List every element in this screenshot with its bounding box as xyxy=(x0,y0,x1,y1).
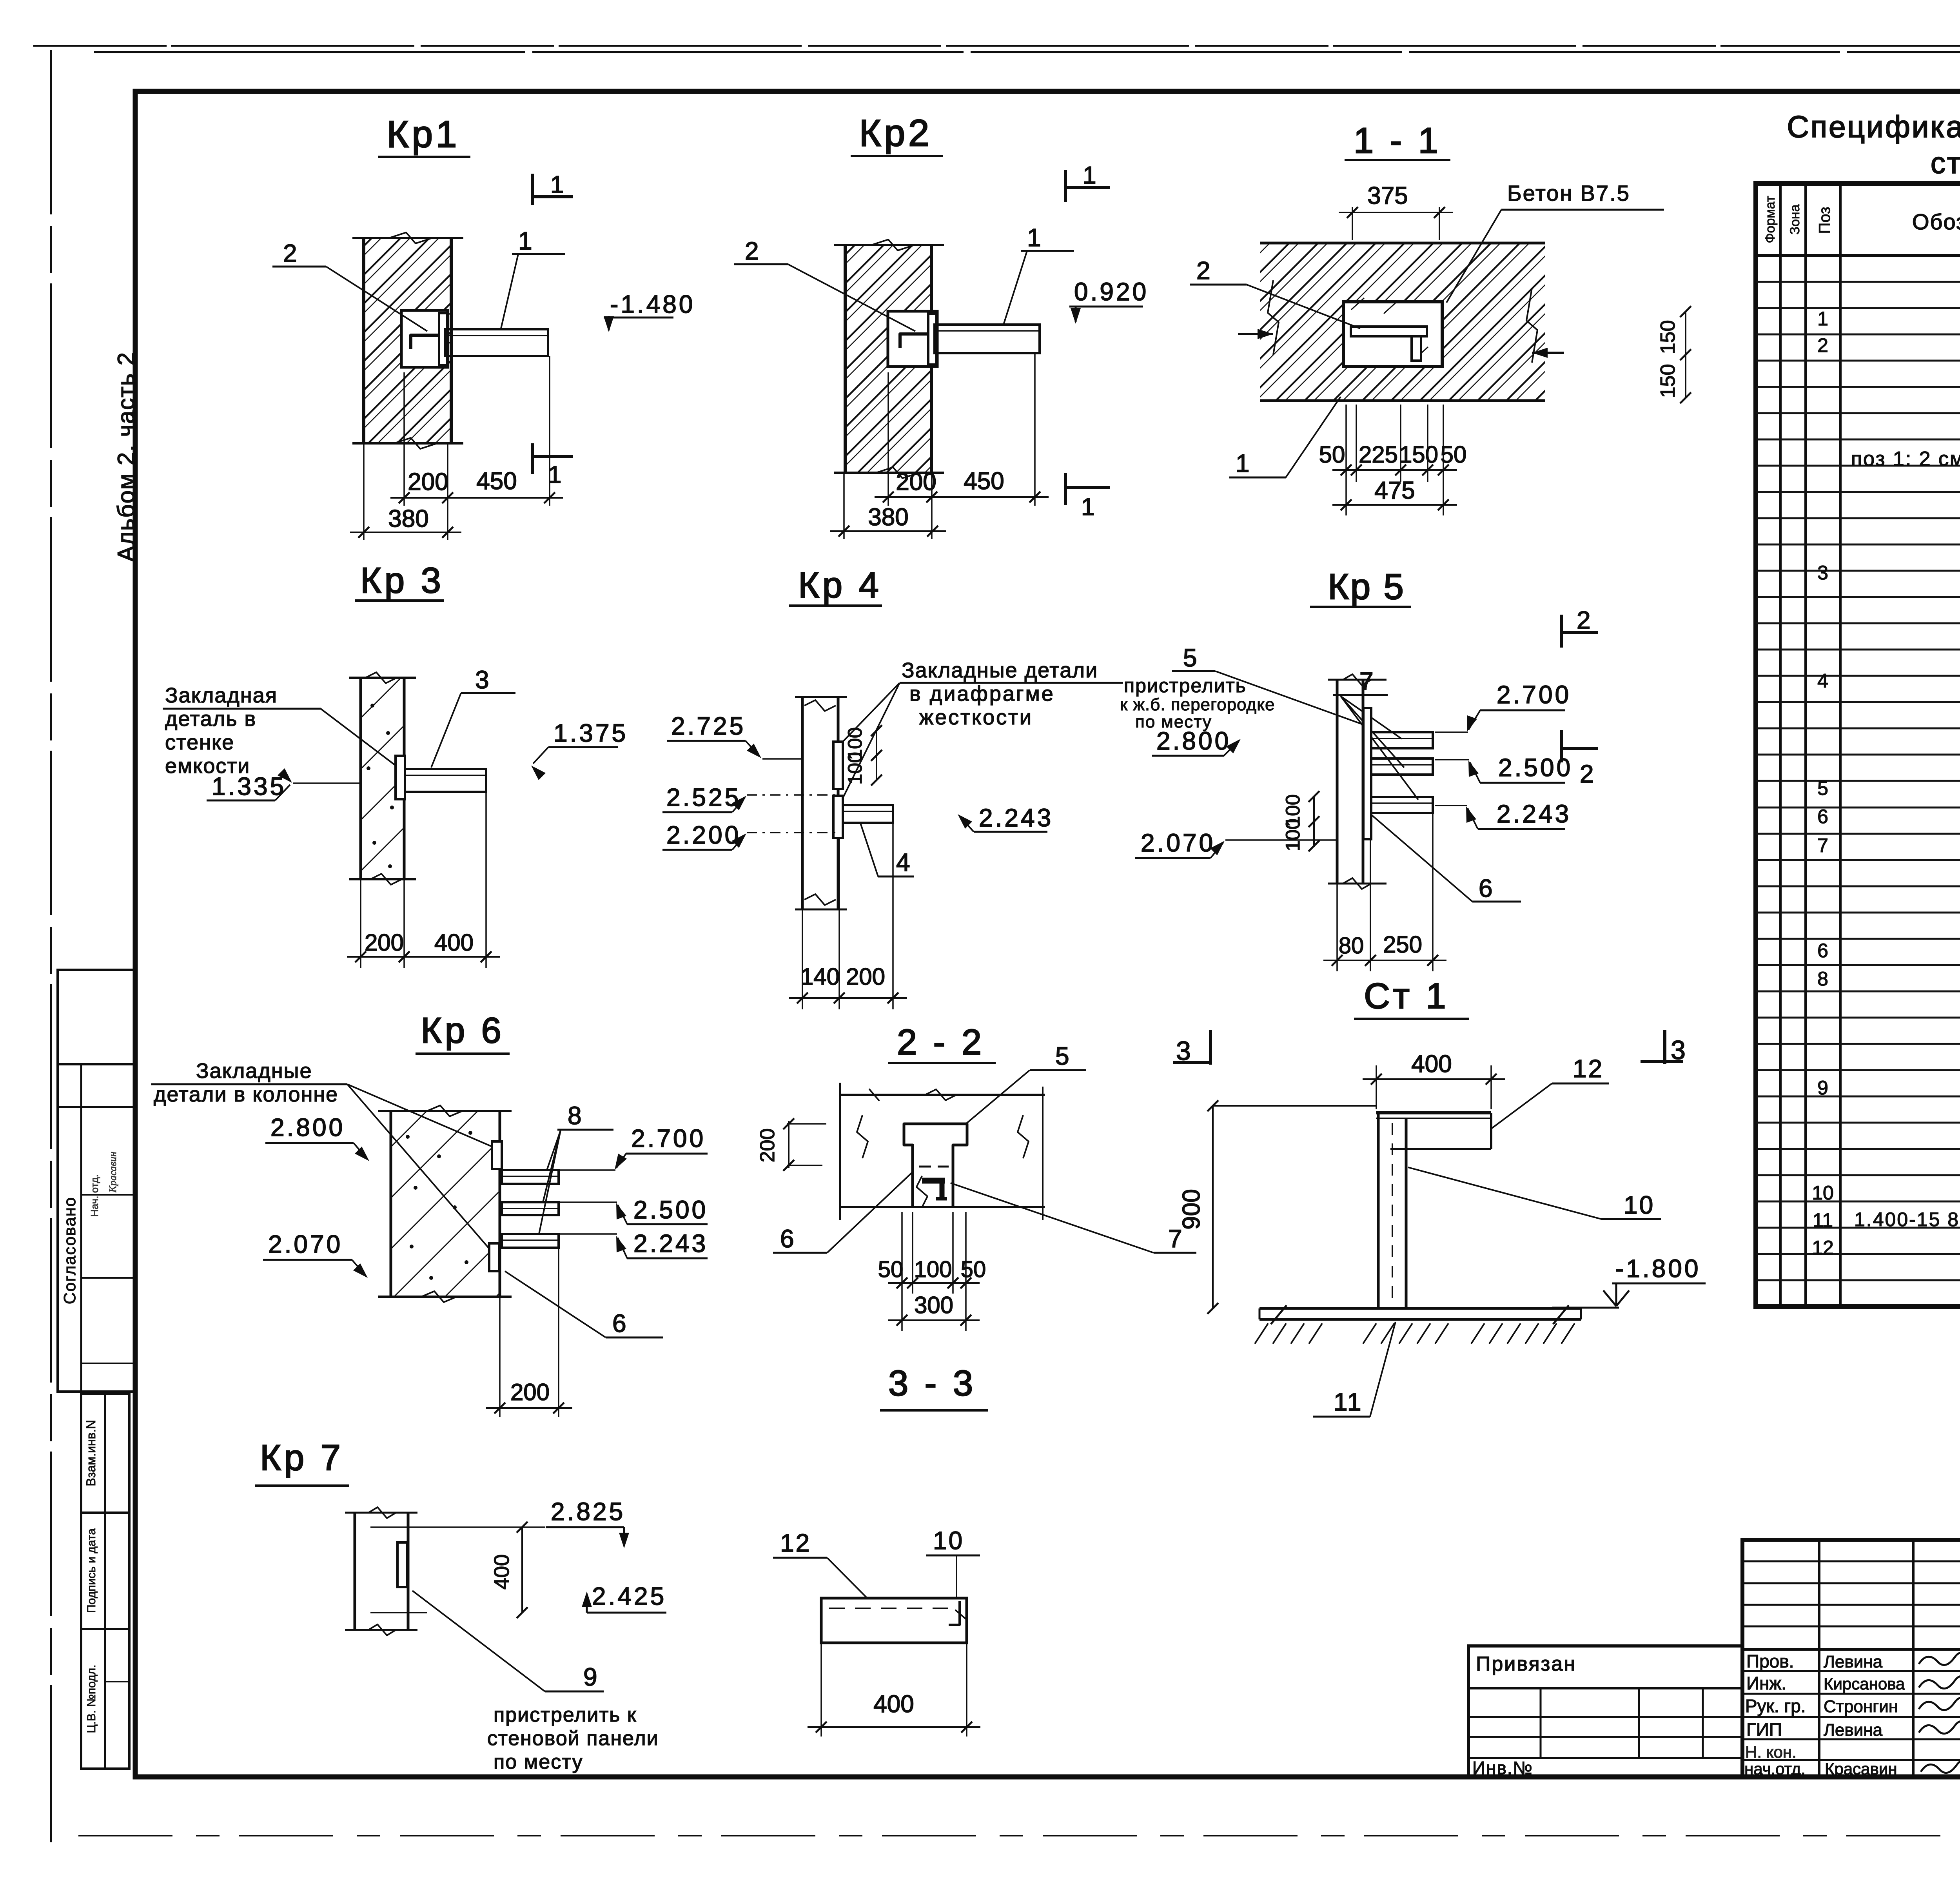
Kp2 dim 200 450 xyxy=(887,372,889,506)
svg-text:12: 12 xyxy=(1812,1237,1834,1259)
svg-text:Закладные детали: Закладные детали xyxy=(902,659,1098,682)
svg-text:140: 140 xyxy=(800,964,840,990)
St1 dim 900 vertical xyxy=(1213,1105,1376,1107)
St1 shelf angle 12 xyxy=(1376,1111,1491,1114)
svg-text:стойке Ст1: стойке Ст1 xyxy=(1931,147,1960,180)
svg-text:6: 6 xyxy=(780,1225,794,1253)
svg-text:11: 11 xyxy=(1334,1388,1363,1416)
Kp3 bracket bar 3 xyxy=(405,769,486,792)
Kp5 wall member xyxy=(1328,679,1387,681)
svg-text:1: 1 xyxy=(1817,308,1828,330)
svg-text:80: 80 xyxy=(1339,933,1364,958)
svg-text:Пров.: Пров. xyxy=(1746,1651,1794,1671)
Kp3 embedded plate xyxy=(396,756,405,799)
privyazan block xyxy=(1468,1646,1742,1777)
svg-text:Ст 1: Ст 1 xyxy=(1364,976,1449,1016)
Kp1 dim 380 xyxy=(363,443,365,540)
svg-text:1.375: 1.375 xyxy=(554,719,628,747)
svg-text:Кр 3: Кр 3 xyxy=(360,561,444,601)
1-1 vertical dims 150 150 xyxy=(1685,312,1686,398)
Kp5 bracket bar top xyxy=(1371,732,1433,748)
Kp4 bracket bar 4 xyxy=(843,805,893,823)
svg-text:450: 450 xyxy=(964,468,1004,495)
svg-text:9: 9 xyxy=(583,1663,597,1691)
title block signatures xyxy=(1919,1653,1960,1665)
svg-text:200: 200 xyxy=(896,468,936,495)
svg-text:400: 400 xyxy=(1411,1051,1452,1078)
St1 dim 400 xyxy=(1376,1065,1377,1109)
title block verticals xyxy=(1818,1540,1820,1777)
svg-text:2.825: 2.825 xyxy=(551,1497,625,1526)
svg-text:Левина: Левина xyxy=(1824,1720,1883,1740)
svg-text:Поз: Поз xyxy=(1816,207,1833,234)
svg-text:2.200: 2.200 xyxy=(666,821,741,849)
svg-text:Кр2: Кр2 xyxy=(859,112,933,154)
svg-text:Красавин: Красавин xyxy=(1825,1760,1897,1778)
svg-text:ГИП: ГИП xyxy=(1746,1719,1782,1740)
svg-text:380: 380 xyxy=(388,505,428,532)
svg-text:2.500: 2.500 xyxy=(1498,753,1573,782)
Kp4 embedded plate bottom xyxy=(833,796,843,838)
svg-text:150: 150 xyxy=(1399,441,1438,468)
outer border top xyxy=(33,45,1960,47)
svg-text:Спецификация к кронштейнам: Спецификация к кронштейнам Кр1 ÷ Кр7 и xyxy=(1787,109,1960,144)
svg-text:6: 6 xyxy=(1479,874,1493,902)
left stamp: soglasovano box xyxy=(58,1064,136,1392)
1-1 dim 375 xyxy=(1352,207,1353,240)
svg-text:Красавин: Красавин xyxy=(107,1152,118,1193)
svg-text:1: 1 xyxy=(1081,494,1094,521)
left stamp: vzam inv box xyxy=(81,1394,129,1513)
Kp5 bracket bar mid xyxy=(1371,758,1433,775)
svg-text:1: 1 xyxy=(1236,449,1250,477)
Kp1 dim 200 450 xyxy=(403,372,405,506)
svg-text:Закладная: Закладная xyxy=(165,684,278,707)
svg-text:Кр 6: Кр 6 xyxy=(421,1011,504,1051)
svg-text:1.400-15 81.420-02: 1.400-15 81.420-02 xyxy=(1854,1208,1960,1230)
2-2 channel plate 5 xyxy=(904,1124,967,1169)
svg-text:2.800: 2.800 xyxy=(1156,727,1231,755)
svg-text:2.725: 2.725 xyxy=(671,712,746,740)
svg-text:Рук. гр.: Рук. гр. xyxy=(1745,1696,1806,1716)
Kp4 embedded plate top xyxy=(833,742,843,789)
svg-text:Согласовано: Согласовано xyxy=(60,1197,79,1305)
svg-text:2: 2 xyxy=(1577,606,1591,634)
Kp1 section mark 1 bottom xyxy=(531,443,534,474)
svg-text:в диафрагме: в диафрагме xyxy=(909,682,1055,706)
outer border left xyxy=(50,50,52,1842)
svg-text:10: 10 xyxy=(1812,1182,1834,1204)
2-2 anchor hook 7 xyxy=(922,1178,945,1184)
svg-text:3 - 3: 3 - 3 xyxy=(888,1363,976,1403)
svg-text:поз 1: 2 см. Кр1: поз 1: 2 см. Кр1 xyxy=(1851,448,1960,470)
svg-text:225: 225 xyxy=(1359,441,1398,468)
Kp3 dim 200 400 xyxy=(360,879,361,968)
svg-text:4: 4 xyxy=(896,848,910,876)
svg-text:200: 200 xyxy=(756,1129,779,1163)
svg-text:450: 450 xyxy=(476,468,517,495)
svg-text:1.335: 1.335 xyxy=(212,772,286,800)
svg-text:Взам.инв.N: Взам.инв.N xyxy=(84,1420,98,1486)
svg-text:2 - 2: 2 - 2 xyxy=(897,1022,985,1062)
svg-text:жесткости: жесткости xyxy=(919,706,1033,729)
Kp6 embedded plate top xyxy=(492,1141,502,1169)
Kp2 embedded plate 2 xyxy=(928,314,936,365)
Kp5 dims 80 250 xyxy=(1336,884,1338,971)
svg-text:8: 8 xyxy=(568,1101,582,1130)
svg-text:Зона: Зона xyxy=(1788,204,1802,234)
svg-text:8: 8 xyxy=(1817,968,1828,990)
svg-text:6: 6 xyxy=(1817,940,1828,962)
svg-text:детали в колонне: детали в колонне xyxy=(154,1083,338,1106)
svg-text:Стронгин: Стронгин xyxy=(1824,1697,1898,1716)
svg-text:250: 250 xyxy=(1383,931,1422,958)
title block small grid rows xyxy=(1742,1560,1960,1562)
Kp6 strap bar mid xyxy=(502,1202,559,1215)
svg-text:пристрелить к: пристрелить к xyxy=(494,1704,637,1726)
svg-text:нач.отд.: нач.отд. xyxy=(1744,1760,1806,1778)
outer border bottom xyxy=(78,1835,1960,1836)
svg-text:Кр 4: Кр 4 xyxy=(798,565,882,605)
Kp2 bracket bar 1 xyxy=(935,325,1040,353)
svg-text:50: 50 xyxy=(878,1257,904,1282)
svg-text:50: 50 xyxy=(1441,441,1467,468)
Kp2 dim 380 xyxy=(843,473,845,539)
spec table column lines xyxy=(1779,183,1782,1306)
Kp2 wall hatched xyxy=(845,245,931,473)
svg-text:3: 3 xyxy=(1817,562,1828,584)
3-3 dim 400 xyxy=(820,1643,822,1737)
svg-text:200: 200 xyxy=(408,468,448,495)
Kp7 wall member xyxy=(345,1512,417,1514)
svg-text:400: 400 xyxy=(490,1554,514,1590)
Kp4 vertical dims 100 100 xyxy=(876,730,877,781)
svg-text:10: 10 xyxy=(933,1526,964,1555)
Kp1 embedded plate 2 box xyxy=(401,310,448,367)
Kp5 vertical dims 100 100 xyxy=(1313,796,1315,847)
svg-text:стеновой панели: стеновой панели xyxy=(487,1727,659,1750)
svg-text:7: 7 xyxy=(1359,667,1374,695)
2-2 dim 300 xyxy=(901,1294,903,1331)
svg-text:12: 12 xyxy=(780,1529,811,1557)
svg-text:Кирсанова: Кирсанова xyxy=(1824,1675,1905,1693)
svg-text:-1.480: -1.480 xyxy=(610,290,695,318)
svg-text:50: 50 xyxy=(961,1257,986,1282)
svg-text:12: 12 xyxy=(1573,1054,1604,1083)
svg-text:10: 10 xyxy=(1624,1191,1655,1219)
Kp1 bracket bar 1 (angle 75x75) xyxy=(445,329,548,356)
svg-text:по месту: по месту xyxy=(494,1751,583,1773)
svg-text:пристрелить: пристрелить xyxy=(1124,675,1247,697)
svg-text:4: 4 xyxy=(1817,670,1828,692)
Kp3 wall (concrete) xyxy=(361,678,404,879)
svg-text:2.243: 2.243 xyxy=(979,804,1053,832)
svg-text:11: 11 xyxy=(1813,1209,1833,1231)
Kp2 embedded plate 2 box xyxy=(888,311,937,367)
Kp4 diaphragm member xyxy=(795,696,847,698)
svg-text:2: 2 xyxy=(1817,334,1828,356)
svg-text:Формат: Формат xyxy=(1763,196,1778,243)
Kp6 strap bar top xyxy=(502,1170,559,1184)
Kp4 dims 140 200 xyxy=(802,909,803,1009)
svg-text:1: 1 xyxy=(1027,223,1041,252)
2-2 wall band xyxy=(839,1094,1045,1096)
svg-text:Нач. отд.: Нач. отд. xyxy=(89,1174,100,1217)
1-1 dims 50 225 150 50 xyxy=(1345,405,1347,482)
svg-text:2.800: 2.800 xyxy=(270,1113,345,1141)
svg-text:150: 150 xyxy=(1657,320,1679,354)
svg-text:400: 400 xyxy=(873,1691,914,1718)
svg-text:Альбом 2. часть 2: Альбом 2. часть 2 xyxy=(113,352,139,562)
svg-text:стенке: стенке xyxy=(165,731,234,754)
Kp1 section mark 1 top xyxy=(531,174,534,205)
svg-text:2: 2 xyxy=(283,239,297,267)
svg-text:380: 380 xyxy=(868,504,908,531)
Kp6 embedded plate bottom xyxy=(489,1243,499,1271)
St1 ground hatch xyxy=(1255,1323,1268,1344)
svg-text:200: 200 xyxy=(846,964,885,990)
left stamp: upper empty box xyxy=(58,970,136,1064)
svg-text:1: 1 xyxy=(518,227,532,255)
svg-text:Н. кон.: Н. кон. xyxy=(1745,1743,1797,1761)
1-1 bracket profile xyxy=(1351,327,1427,336)
svg-text:200: 200 xyxy=(365,929,404,956)
svg-text:Привязан: Привязан xyxy=(1476,1653,1576,1675)
Kp6 column (concrete) xyxy=(391,1111,500,1297)
St1 section mark 3 right xyxy=(1663,1030,1666,1064)
svg-text:150: 150 xyxy=(1657,364,1679,398)
1-1 dim 475 xyxy=(1345,482,1347,515)
svg-text:2.243: 2.243 xyxy=(633,1229,708,1257)
svg-text:Кр1: Кр1 xyxy=(387,113,460,155)
svg-text:2.070: 2.070 xyxy=(268,1230,343,1258)
svg-text:Закладные: Закладные xyxy=(196,1059,312,1083)
Kp1 embedded plate 2 xyxy=(439,313,447,365)
svg-text:100: 100 xyxy=(914,1257,952,1282)
left stamp: inv no podl box xyxy=(81,1629,129,1769)
svg-text:2: 2 xyxy=(1580,760,1594,788)
svg-text:6: 6 xyxy=(1817,806,1828,827)
Kp6 strap bar bottom xyxy=(502,1234,559,1248)
3-3 plate xyxy=(821,1598,967,1643)
title block row lines xyxy=(1742,1648,1960,1651)
svg-text:Левина: Левина xyxy=(1824,1652,1883,1671)
svg-text:100: 100 xyxy=(1282,818,1304,851)
svg-text:2: 2 xyxy=(745,237,759,265)
svg-text:7: 7 xyxy=(1817,835,1828,856)
svg-text:к ж.б. перегородке: к ж.б. перегородке xyxy=(1120,695,1275,714)
svg-text:Кр 7: Кр 7 xyxy=(260,1438,343,1478)
svg-text:900: 900 xyxy=(1178,1189,1205,1229)
svg-text:475: 475 xyxy=(1374,477,1415,504)
svg-text:1: 1 xyxy=(550,171,564,198)
svg-text:2.070: 2.070 xyxy=(1141,829,1215,857)
svg-text:2.700: 2.700 xyxy=(1497,680,1571,709)
svg-text:2.243: 2.243 xyxy=(1497,800,1571,828)
svg-text:Подпись и дата: Подпись и дата xyxy=(85,1528,98,1613)
svg-text:3: 3 xyxy=(1671,1035,1686,1065)
St1 base plate 11 xyxy=(1259,1307,1581,1310)
svg-text:6: 6 xyxy=(612,1309,626,1337)
svg-text:Инж.: Инж. xyxy=(1746,1673,1786,1693)
svg-text:100: 100 xyxy=(844,752,866,784)
svg-text:50: 50 xyxy=(1319,441,1345,468)
Kp5 section mark 2 mid xyxy=(1560,730,1563,762)
1-1 cut arrows xyxy=(1238,333,1273,335)
svg-text:Ц.В. №подл.: Ц.В. №подл. xyxy=(85,1664,98,1733)
svg-text:2.500: 2.500 xyxy=(633,1196,708,1224)
svg-text:2.700: 2.700 xyxy=(631,1124,706,1152)
2-2 vertical dim 200 xyxy=(788,1121,789,1168)
svg-text:Инв.№: Инв.№ xyxy=(1472,1758,1533,1778)
Kp2 section mark 1 top xyxy=(1064,170,1067,202)
svg-text:-1.800: -1.800 xyxy=(1615,1254,1700,1283)
svg-text:400: 400 xyxy=(434,929,474,956)
svg-text:0.920: 0.920 xyxy=(1074,278,1149,306)
2-2 embedded plate stem xyxy=(911,1145,914,1207)
svg-text:Обозначение: Обозначение xyxy=(1912,209,1960,234)
Kp5 plate 5 xyxy=(1363,708,1371,839)
Kp7 embedded plate 9 xyxy=(397,1542,407,1587)
svg-text:3: 3 xyxy=(475,666,489,694)
left stamp: podpis i data box xyxy=(81,1513,129,1629)
title block outer xyxy=(1742,1540,1960,1777)
Kp2 section mark 1 bottom xyxy=(1064,473,1067,505)
svg-text:5: 5 xyxy=(1055,1042,1069,1070)
1-1 embedded box (concrete B7.5) xyxy=(1343,302,1442,367)
svg-text:Кр 5: Кр 5 xyxy=(1328,567,1405,607)
svg-text:2.425: 2.425 xyxy=(592,1582,666,1610)
Kp7 vertical dim 400 xyxy=(370,1526,545,1528)
Kp1 wall hatched xyxy=(364,238,451,443)
Kp5 section mark 2 top xyxy=(1560,615,1563,648)
spec table header row xyxy=(1756,254,1960,257)
svg-text:375: 375 xyxy=(1367,182,1408,209)
svg-text:1: 1 xyxy=(1083,162,1096,189)
svg-text:Бетон В7.5: Бетон В7.5 xyxy=(1507,181,1630,205)
1-1 wall band hatched xyxy=(1260,243,1545,401)
Kp5 bracket bar bottom xyxy=(1371,797,1433,813)
St1 post angle 10 xyxy=(1377,1114,1380,1308)
svg-text:5: 5 xyxy=(1817,777,1828,799)
spec table row lines xyxy=(1756,281,1960,283)
svg-text:1 - 1: 1 - 1 xyxy=(1354,121,1441,161)
svg-text:200: 200 xyxy=(510,1379,550,1405)
svg-text:2.525: 2.525 xyxy=(666,783,741,811)
2-2 dims 50 100 50 xyxy=(901,1212,903,1294)
Kp6 dim 200 xyxy=(499,1297,501,1417)
spec table outer xyxy=(1756,183,1960,1306)
svg-text:2: 2 xyxy=(1196,256,1210,285)
svg-text:деталь в: деталь в xyxy=(165,707,256,731)
svg-text:5: 5 xyxy=(1183,644,1197,672)
svg-text:9: 9 xyxy=(1817,1077,1828,1099)
svg-text:300: 300 xyxy=(914,1292,953,1318)
